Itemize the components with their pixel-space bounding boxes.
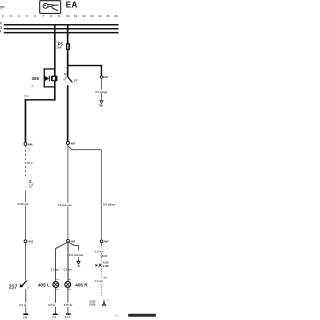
svg-text:0.5 sw/ge: 0.5 sw/ge — [95, 90, 107, 94]
svg-text:0.5 br: 0.5 br — [48, 303, 55, 307]
svg-text:16426: 16426 — [101, 255, 108, 258]
svg-text:0.5 ws: 0.5 ws — [64, 267, 73, 271]
svg-text:30: 30 — [0, 22, 2, 26]
svg-text:2-2: 2-2 — [52, 316, 56, 319]
svg-text:10A: 10A — [56, 46, 62, 50]
svg-text:1.5 ws-sw: 1.5 ws-sw — [57, 203, 72, 207]
svg-text:1.5 ws: 1.5 ws — [95, 249, 104, 253]
svg-text:0.75 w: 0.75 w — [25, 161, 34, 165]
svg-text:A97: A97 — [103, 75, 109, 79]
svg-text:15: 15 — [106, 14, 110, 18]
svg-text:217: 217 — [9, 284, 18, 290]
svg-text:0.5 gr: 0.5 gr — [19, 303, 26, 307]
svg-text:405 R: 405 R — [75, 282, 88, 287]
svg-text:496: 496 — [28, 142, 33, 146]
svg-text:13: 13 — [90, 14, 94, 18]
svg-text:497: 497 — [70, 142, 75, 146]
svg-text:0.35 sw: 0.35 sw — [18, 202, 29, 206]
svg-text:E198: E198 — [89, 303, 96, 307]
svg-text:143: 143 — [23, 315, 28, 319]
svg-text:1.5 ws: 1.5 ws — [94, 279, 103, 283]
svg-text:10: 10 — [66, 14, 70, 18]
svg-text:45 A: 45 A — [24, 95, 29, 98]
svg-text:sw: sw — [103, 277, 106, 280]
svg-text:0.5 ws/sw: 0.5 ws/sw — [69, 253, 84, 257]
svg-text:A97: A97 — [104, 240, 110, 244]
svg-text:11: 11 — [74, 14, 78, 18]
svg-text:14-2: 14-2 — [65, 316, 71, 319]
svg-text:EA: EA — [66, 1, 78, 10]
svg-text:0.5 ws: 0.5 ws — [51, 267, 60, 271]
svg-text:16: 16 — [114, 14, 118, 18]
svg-text:0.75 br: 0.75 br — [64, 303, 73, 307]
svg-text:706: 706 — [98, 104, 103, 108]
svg-text:12: 12 — [82, 14, 86, 18]
svg-text:0.5 bl/sw: 0.5 bl/sw — [103, 202, 116, 206]
svg-text:405 L: 405 L — [38, 282, 50, 287]
svg-text:401: 401 — [28, 240, 33, 244]
svg-text:14: 14 — [98, 14, 102, 18]
svg-text:305: 305 — [32, 76, 40, 81]
svg-text:E198: E198 — [103, 265, 109, 268]
svg-text:87F: 87F — [74, 80, 79, 83]
svg-text:497: 497 — [70, 239, 75, 243]
